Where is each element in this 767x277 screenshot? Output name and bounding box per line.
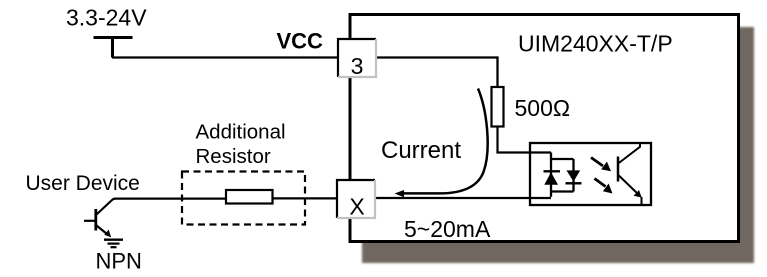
svg-text:Current: Current [381, 137, 461, 164]
svg-text:Additional: Additional [196, 121, 286, 144]
svg-text:3: 3 [351, 53, 364, 79]
svg-text:5~20mA: 5~20mA [404, 216, 491, 242]
svg-text:UIM240XX-T/P: UIM240XX-T/P [518, 31, 673, 57]
svg-text:500Ω: 500Ω [515, 95, 571, 121]
svg-text:Resistor: Resistor [196, 145, 271, 168]
svg-text:NPN: NPN [96, 248, 142, 273]
svg-text:User Device: User Device [26, 172, 140, 195]
svg-text:X: X [349, 194, 364, 220]
svg-text:VCC: VCC [277, 28, 324, 53]
svg-text:3.3-24V: 3.3-24V [66, 5, 147, 31]
